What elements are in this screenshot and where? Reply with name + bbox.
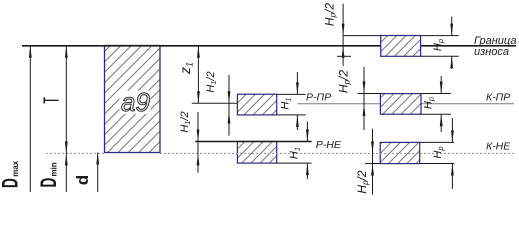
- center line PR row left segment (line A): [192, 102, 238, 104]
- ext line R-NE top (long): [195, 141, 311, 143]
- ext line K-I top right: [421, 35, 459, 37]
- label T (rotated, drawn): [44, 97, 58, 103]
- dim line Hp/2 of K-PR: [363, 67, 366, 130]
- dim line H1/2 of R-NE: [197, 112, 200, 173]
- line d_min (grey dashed) left of big rect: [46, 152, 105, 154]
- ext line K-I bottom right: [421, 55, 459, 57]
- rect K-I wear gauge zone (top right): [381, 36, 421, 57]
- ext line K-PR bottom right: [421, 113, 451, 115]
- rect R-PR gauge zone: [237, 94, 276, 115]
- dim line H1/2 of R-PR: [228, 75, 231, 136]
- ext tick K-I bottom left: [337, 55, 351, 57]
- dim line T / D_min: [65, 46, 68, 192]
- dim line d: [96, 153, 99, 193]
- line d_max (main upper boundary line): [22, 45, 381, 47]
- label a9 backing: [120, 91, 151, 115]
- line granitsa iznosa right part: [421, 45, 516, 47]
- ext line K-PR top right: [421, 93, 451, 95]
- ext line R-PR top right: [277, 93, 306, 95]
- dim line D_max: [29, 46, 32, 192]
- svg-text:износа: износа: [474, 46, 509, 58]
- svg-text:Р-ПР: Р-ПР: [306, 92, 331, 104]
- svg-text:а9: а9: [121, 87, 150, 117]
- dim line Hp/2 of K-NE: [371, 129, 374, 195]
- svg-text:min: min: [50, 162, 59, 176]
- dim line Hp/2 of K-I (top): [342, 4, 345, 66]
- ext line K-PR top left: [358, 93, 381, 95]
- ext line K-I top left: [343, 35, 381, 37]
- line d_min (grey dashed) right of big rect: [160, 152, 514, 154]
- center line PR row middle segment: [298, 103, 381, 105]
- ext line R-NE bottom right: [277, 162, 312, 164]
- line d_max over big rect top edge: [105, 45, 161, 47]
- dim line z1: [197, 46, 200, 104]
- dim line Hp of K-PR: [440, 76, 443, 132]
- svg-text:d: d: [73, 175, 92, 185]
- rect K-NE gauge zone: [380, 142, 420, 163]
- center line K-PR right segment: [421, 103, 514, 105]
- ext line K-NE top right: [420, 141, 454, 143]
- ext line K-NE bottom right: [420, 163, 454, 165]
- ext line R-PR bottom right: [277, 114, 306, 116]
- svg-text:Граница: Граница: [474, 35, 516, 47]
- rect R-NE gauge zone: [237, 142, 276, 164]
- svg-text:Р-НЕ: Р-НЕ: [316, 139, 342, 151]
- dim line H1 of R-PR: [296, 72, 299, 130]
- svg-text:D: D: [36, 178, 61, 188]
- dim line Hp of K-I: [450, 17, 453, 70]
- tolerance zone a9 (big hatched rect): [105, 46, 161, 153]
- dim line H1 of R-NE: [306, 122, 309, 180]
- svg-text:К-ПР: К-ПР: [486, 92, 510, 104]
- rect K-PR gauge zone: [380, 94, 421, 115]
- ext line K-NE bottom left: [365, 163, 380, 165]
- svg-text:К-НЕ: К-НЕ: [486, 141, 511, 153]
- svg-text:D: D: [0, 178, 22, 188]
- dim line Hp of K-NE: [451, 118, 454, 189]
- svg-text:max: max: [11, 160, 20, 177]
